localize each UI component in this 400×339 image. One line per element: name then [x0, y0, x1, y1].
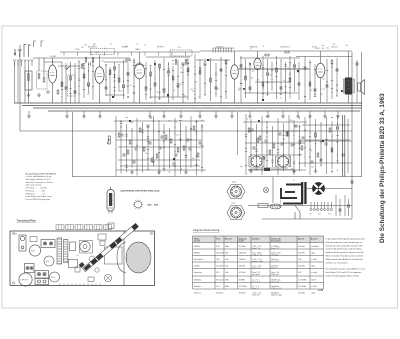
- svg-text:unten: unten: [231, 202, 236, 205]
- svg-text:50k: 50k: [168, 121, 171, 123]
- component lead: [185, 156, 187, 158]
- component lead: [141, 131, 143, 133]
- resistor R3: [61, 82, 63, 86]
- svg-text:500: 500: [120, 90, 123, 92]
- capacitor C11: [145, 86, 147, 89]
- chassis outline: [10, 231, 155, 286]
- component lead: [331, 170, 333, 172]
- ground: [130, 170, 134, 174]
- wire: [243, 121, 307, 123]
- junction: [79, 93, 80, 94]
- wire: [305, 139, 350, 141]
- capacitor C5: [89, 62, 91, 65]
- svg-text:150: 150: [287, 68, 290, 70]
- wire: [150, 96, 188, 98]
- wire: [240, 57, 300, 59]
- component lead: [177, 83, 179, 85]
- IF transformer can: [91, 49, 115, 55]
- capacitor C39: [265, 139, 267, 142]
- svg-text:0,5: 0,5: [139, 62, 141, 64]
- wire: [163, 124, 165, 172]
- component lead: [194, 73, 196, 75]
- component lead: [320, 164, 322, 166]
- ground: [214, 114, 218, 118]
- wire: [139, 52, 141, 64]
- wire: [180, 122, 182, 174]
- component lead: [187, 63, 189, 65]
- wire: [314, 64, 316, 97]
- svg-text:Bü2: Bü2: [46, 261, 49, 263]
- component lead: [163, 140, 165, 142]
- IF can bar 2: [64, 240, 68, 263]
- svg-text:452/10,7: 452/10,7: [216, 292, 223, 294]
- capacitor C15: [177, 84, 179, 87]
- junction: [180, 131, 181, 132]
- svg-text:0,5: 0,5: [144, 44, 146, 46]
- resistor R51: [317, 153, 319, 157]
- junction: [202, 120, 203, 121]
- component lead: [284, 92, 286, 94]
- component lead: [309, 156, 311, 158]
- wire: [266, 121, 268, 171]
- wire drop: [171, 52, 173, 56]
- wire: [199, 59, 201, 99]
- wire: [299, 125, 301, 171]
- svg-text:10n: 10n: [77, 49, 80, 51]
- component lead: [289, 74, 291, 76]
- resistor R43: [151, 158, 153, 162]
- svg-text:1k: 1k: [250, 49, 252, 51]
- svg-text:Tr 2 - C 5: Tr 2 - C 5: [252, 281, 260, 284]
- ground: [249, 169, 253, 173]
- wire: [115, 116, 117, 177]
- component lead: [277, 152, 279, 154]
- ground: [308, 114, 312, 118]
- wire: [244, 92, 298, 94]
- component lead: [154, 85, 156, 87]
- chassis screw 3: [12, 232, 14, 234]
- speaker magnet: [126, 242, 151, 273]
- capacitor C22: [267, 72, 269, 75]
- junction: [75, 86, 76, 87]
- svg-text:518: 518: [216, 259, 219, 261]
- wire stub: [215, 111, 217, 114]
- component lead: [309, 140, 311, 142]
- connector block: [264, 168, 270, 171]
- wire: [336, 58, 338, 96]
- junction: [315, 132, 316, 133]
- socket block A: [41, 240, 55, 248]
- component lead: [289, 86, 291, 88]
- wire: [248, 169, 306, 171]
- capacitor C27: [314, 88, 316, 91]
- component lead: [240, 83, 242, 85]
- component lead: [147, 140, 149, 142]
- component lead: [105, 64, 107, 66]
- junction: [305, 96, 306, 97]
- wire: [114, 120, 205, 122]
- junction: [180, 137, 181, 138]
- svg-text:Bü3: Bü3: [52, 277, 55, 279]
- wire: [315, 119, 317, 170]
- resistor R13: [187, 68, 189, 72]
- capacitor C7: [105, 86, 107, 89]
- component lead: [201, 125, 203, 127]
- component lead: [61, 86, 63, 88]
- resistor R31: [197, 153, 199, 157]
- component lead: [284, 66, 286, 68]
- svg-text:452: 452: [298, 272, 301, 274]
- capacitor C21: [249, 86, 251, 89]
- component lead: [244, 77, 246, 79]
- wire: [88, 66, 90, 93]
- svg-text:5k: 5k: [263, 46, 265, 48]
- junction: [146, 76, 147, 77]
- component lead: [225, 91, 227, 93]
- svg-text:NF-Bereich . . . . . . . . 47: NF-Bereich . . . . . . . . 47: [26, 193, 46, 195]
- component lead: [163, 92, 165, 94]
- resistor R20: [289, 78, 291, 82]
- svg-text:abgl.: abgl.: [311, 292, 315, 294]
- component lead: [158, 97, 160, 99]
- junction: [137, 169, 138, 170]
- wire stub: [267, 111, 269, 114]
- ground: [65, 114, 69, 118]
- component lead: [255, 164, 257, 166]
- svg-text:n. abgl.: n. abgl.: [311, 272, 318, 274]
- svg-text:MHz: MHz: [225, 279, 229, 281]
- wire: [248, 205, 352, 207]
- component lead: [204, 82, 206, 84]
- wire: [196, 59, 230, 61]
- wire: [326, 117, 328, 174]
- component lead: [336, 84, 338, 86]
- capacitor C8: [114, 66, 116, 69]
- component lead: [195, 131, 197, 133]
- wire: [17, 62, 19, 103]
- wire heavy: [344, 115, 346, 177]
- component lead: [179, 119, 181, 121]
- component lead: [293, 171, 295, 173]
- junction: [337, 170, 338, 171]
- wire: [262, 56, 264, 101]
- junction: [88, 71, 89, 72]
- capacitor C1: [47, 90, 49, 93]
- component lead: [190, 127, 192, 129]
- svg-text:100: 100: [190, 89, 193, 91]
- capacitor C12: [154, 82, 156, 85]
- component lead: [92, 65, 94, 67]
- resistor R49: [287, 132, 289, 136]
- capacitor C47: [339, 208, 341, 211]
- component lead: [174, 165, 176, 167]
- junction: [62, 96, 63, 97]
- component lead: [275, 76, 277, 78]
- svg-text:500: 500: [345, 45, 348, 47]
- coil L6: [185, 59, 187, 64]
- dial drum: [80, 241, 93, 254]
- svg-text:n. Roll.: n. Roll.: [311, 259, 317, 261]
- component lead: [255, 168, 257, 170]
- wire: [348, 51, 350, 78]
- component lead: [255, 148, 257, 150]
- component lead: [215, 80, 217, 82]
- wire: [120, 120, 122, 174]
- wire: [237, 112, 239, 155]
- coil L4: [92, 57, 94, 62]
- svg-text:5k: 5k: [157, 92, 159, 94]
- component lead: [147, 149, 149, 151]
- tube V3: [134, 64, 144, 78]
- component lead: [133, 93, 135, 95]
- junction: [216, 93, 217, 94]
- wire drop: [63, 52, 65, 56]
- component lead: [125, 166, 127, 168]
- svg-text:Kern L 10: Kern L 10: [252, 247, 260, 250]
- svg-text:70p: 70p: [310, 90, 313, 92]
- big socket circle: [19, 273, 32, 286]
- dial lamp: [263, 187, 268, 192]
- junction: [116, 134, 117, 135]
- component lead: [204, 94, 206, 96]
- component lead: [133, 64, 135, 66]
- svg-text:5k: 5k: [283, 80, 285, 82]
- component lead: [304, 147, 306, 149]
- svg-text:110: 110: [309, 214, 312, 216]
- wire rail: [33, 57, 130, 59]
- coil L1: [27, 73, 29, 81]
- cross circle: [104, 274, 111, 281]
- wire: [196, 120, 198, 176]
- component lead: [215, 74, 217, 76]
- svg-text:wie oben: wie oben: [252, 274, 259, 276]
- tube V2: [95, 67, 104, 84]
- tube socket T3 top: [50, 272, 60, 282]
- component lead: [158, 131, 160, 133]
- junction: [195, 94, 196, 95]
- socket S2 lugs: [276, 157, 291, 167]
- capacitor C41: [291, 143, 293, 146]
- wire: [74, 63, 76, 103]
- junction: [159, 69, 160, 70]
- component body: [112, 96, 114, 98]
- svg-text:1k: 1k: [280, 93, 282, 95]
- wire: [309, 115, 311, 175]
- junction: [210, 92, 211, 93]
- wire bus: [33, 107, 362, 109]
- component lead: [284, 63, 286, 65]
- component lead: [133, 59, 135, 61]
- svg-text:detektor direkt gespeist; eben: detektor direkt gespeist; ebenso sind di…: [326, 251, 365, 254]
- svg-text:AUSFÜHRUNG DER RÖHRE UM84 GLÄS: AUSFÜHRUNG DER RÖHRE UM84 GLÄS.: [121, 189, 161, 192]
- wire stub: [180, 111, 182, 114]
- antenna earth T: [18, 50, 22, 57]
- capacitor C54: [187, 138, 189, 141]
- component lead: [304, 129, 306, 131]
- ground: [27, 93, 31, 97]
- resistor R47: [257, 138, 259, 142]
- component lead: [113, 73, 115, 75]
- component lead: [266, 131, 268, 133]
- component lead: [122, 87, 124, 89]
- svg-text:10,7 MHz: 10,7 MHz: [239, 286, 247, 288]
- tube socket T2 top: [44, 256, 54, 266]
- speaker: [358, 80, 365, 95]
- svg-text:Ratiodet.: Ratiodet.: [194, 285, 202, 288]
- wire top rail: [200, 50, 352, 52]
- coil L1 box: [25, 71, 32, 90]
- resistor R22: [285, 51, 289, 53]
- resistor R8: [118, 78, 120, 82]
- ground: [296, 114, 300, 118]
- svg-text:MW-Ber.: MW-Ber.: [194, 251, 202, 254]
- small part E: [70, 242, 76, 251]
- junction: [290, 65, 291, 66]
- wire drop: [131, 52, 133, 56]
- junction: [256, 145, 257, 146]
- wire: [304, 56, 306, 103]
- capacitor C24: [294, 64, 296, 67]
- component lead: [245, 136, 247, 138]
- table cell text: [194, 245, 319, 297]
- wire: [325, 188, 352, 190]
- svg-text:5k: 5k: [136, 44, 138, 46]
- capacitor C53: [173, 162, 175, 165]
- component lead: [249, 88, 251, 90]
- wire bus: [20, 130, 352, 132]
- component lead: [152, 120, 154, 122]
- component lead: [199, 66, 201, 68]
- capacitor C60: [325, 142, 327, 145]
- junction: [106, 77, 107, 78]
- junction: [84, 77, 85, 78]
- component lead: [113, 80, 115, 82]
- wire: [288, 115, 290, 167]
- svg-text:Zwischenkr.: Zwischenkr.: [271, 241, 282, 243]
- svg-text:ZF-Verlauf . . . . . . 452 kHz: ZF-Verlauf . . . . . . 452 kHz: [26, 188, 48, 190]
- component lead: [182, 82, 184, 84]
- wire: [234, 79, 236, 103]
- junction: [114, 75, 115, 76]
- svg-text:100: 100: [322, 79, 325, 81]
- wire: [52, 58, 54, 65]
- wire stub: [337, 111, 339, 114]
- component lead: [314, 69, 316, 71]
- svg-text:70p: 70p: [192, 158, 195, 160]
- wire: [52, 83, 54, 103]
- component lead: [314, 96, 316, 98]
- junction: [168, 64, 169, 65]
- resistor R6: [83, 74, 85, 78]
- svg-text:Größe wiedergegeben (Ausschnit: Größe wiedergegeben (Ausschnitt).: [326, 274, 360, 277]
- wire: [283, 123, 285, 171]
- wire: [70, 62, 72, 103]
- junction: [267, 70, 268, 71]
- component lead: [201, 167, 203, 169]
- wire stub: [28, 111, 30, 114]
- component lead: [225, 74, 227, 76]
- component lead: [105, 79, 107, 81]
- wire: [159, 64, 161, 100]
- junction: [272, 82, 273, 83]
- resistor R17: [245, 76, 247, 80]
- component body: [129, 120, 131, 122]
- wire: [92, 61, 94, 100]
- capacitor C13: [163, 88, 165, 91]
- component lead: [78, 79, 80, 81]
- table grid: [193, 236, 324, 289]
- svg-text:0,1: 0,1: [175, 121, 177, 123]
- component lead: [266, 82, 268, 84]
- wire: [163, 58, 165, 97]
- resistor R9: [126, 59, 130, 61]
- component lead: [225, 60, 227, 62]
- component lead: [266, 116, 268, 118]
- ground: [230, 114, 234, 118]
- ground: [179, 114, 183, 118]
- tube V6: [316, 63, 325, 77]
- component lead: [78, 67, 80, 69]
- junction: [332, 150, 333, 151]
- svg-text:500: 500: [216, 88, 219, 90]
- component lead: [190, 139, 192, 141]
- wire: [120, 165, 200, 167]
- tuning gang box: [68, 75, 76, 96]
- capacitor C45: [342, 153, 344, 156]
- svg-text:470: 470: [257, 79, 260, 81]
- wire stub: [324, 111, 326, 114]
- svg-text:MHz: MHz: [225, 286, 229, 288]
- junction: [315, 143, 316, 144]
- wire: [126, 124, 128, 171]
- tube socket S2: [278, 156, 289, 167]
- ground: [98, 114, 102, 118]
- pushbutton row: [56, 225, 112, 230]
- socket S2 pins: [278, 157, 287, 166]
- component lead: [92, 70, 94, 72]
- svg-text:UCH81: UCH81: [50, 56, 56, 58]
- svg-text:abgl.: abgl.: [311, 265, 315, 267]
- junction: [326, 124, 327, 125]
- svg-text:kHz: kHz: [225, 272, 228, 274]
- resistor R32: [248, 128, 250, 132]
- svg-text:Sperrkr.: Sperrkr.: [298, 238, 305, 240]
- junction: [153, 156, 154, 157]
- capacitor C38: [253, 146, 255, 149]
- capacitor C59: [311, 160, 313, 163]
- component lead: [336, 89, 338, 91]
- junction: [283, 154, 284, 155]
- svg-text:bereich: bereich: [194, 241, 200, 243]
- fuse F1: [270, 204, 281, 209]
- svg-text:220: 220: [328, 214, 331, 216]
- svg-text:KW-Ber.: KW-Ber.: [194, 245, 201, 248]
- svg-text:UL84: UL84: [315, 48, 320, 50]
- component lead: [172, 70, 174, 72]
- junction: [195, 88, 196, 89]
- svg-text:kHz: kHz: [225, 265, 228, 267]
- wire heavy: [342, 115, 344, 177]
- component lead: [87, 85, 89, 87]
- svg-text:0,5: 0,5: [198, 97, 200, 99]
- wire: [234, 51, 236, 65]
- twin socket D: [35, 279, 49, 285]
- svg-text:20p: 20p: [326, 48, 329, 50]
- svg-text:punkte: punkte: [239, 240, 245, 243]
- component lead: [152, 160, 154, 162]
- component lead: [120, 120, 122, 122]
- wire bus: [48, 110, 360, 112]
